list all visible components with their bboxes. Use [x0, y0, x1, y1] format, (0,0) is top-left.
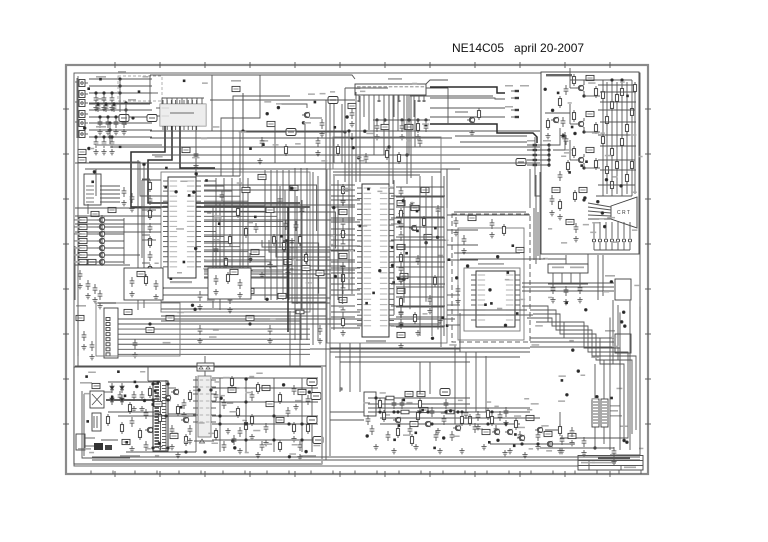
svg-text:NE14C05 april 20-2007: NE14C05 april 20-2007 — [452, 41, 584, 55]
svg-text:C R T: C R T — [617, 210, 630, 216]
